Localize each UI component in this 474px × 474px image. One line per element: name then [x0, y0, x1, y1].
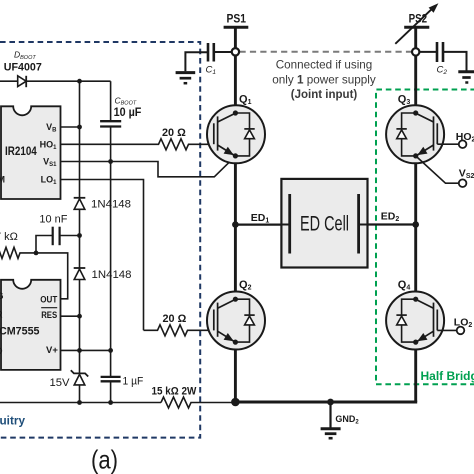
svg-text:1N4148: 1N4148: [91, 199, 131, 211]
node PS1: [232, 48, 239, 55]
transistor Q4: [386, 279, 444, 350]
transistor Q1: [207, 93, 265, 163]
wire VS1: [61, 156, 236, 177]
node ED1: [232, 212, 269, 228]
wire PS2 column top: [414, 27, 417, 113]
capacitor C2: [437, 42, 448, 76]
wire V+ pin: [61, 349, 111, 351]
svg-text:RES: RES: [41, 310, 57, 321]
resistor R1 20 ohm: [61, 127, 214, 150]
ground GND2: [321, 402, 360, 438]
zener 15V: [50, 370, 89, 389]
wire OUT: [36, 253, 68, 299]
svg-text:ED Cell: ED Cell: [300, 211, 349, 235]
resistor R4 15k 2W: [152, 386, 234, 408]
junction V+ zener: [77, 348, 82, 353]
svg-text:(Joint input): (Joint input): [291, 87, 358, 101]
capacitor C1: [206, 43, 217, 76]
svg-text:15 kΩ 2W: 15 kΩ 2W: [152, 386, 197, 398]
svg-text:(a): (a): [91, 445, 118, 474]
wire LO1: [61, 180, 144, 331]
capacitor Cboot 10uF: [100, 95, 141, 126]
svg-text:HO2: HO2: [456, 131, 474, 144]
wire ED1: [235, 224, 282, 226]
junction VS1-Cboot: [108, 159, 113, 164]
svg-text:10 nF: 10 nF: [39, 214, 67, 226]
junction bottom cap: [108, 400, 113, 405]
wire VS2 lead: [416, 156, 459, 183]
IC U1 IR2104: [0, 106, 61, 199]
svg-text:20 Ω: 20 Ω: [163, 313, 187, 325]
wire RES pin: [61, 315, 80, 317]
wire bottom left: [0, 402, 161, 404]
junction VB: [77, 125, 82, 130]
diode D2 1N4148: [74, 268, 132, 281]
junction V+ cap: [108, 348, 113, 353]
junction timing: [34, 251, 39, 256]
ED cell box: [281, 179, 367, 268]
svg-text:20 Ω: 20 Ω: [162, 127, 186, 139]
wire mid column Q2 bottom: [234, 342, 237, 402]
svg-text:M: M: [0, 175, 5, 185]
terminal HO2: [456, 131, 474, 148]
svg-text:UF4007: UF4007: [4, 62, 42, 74]
svg-text:1N4148: 1N4148: [92, 269, 132, 281]
supply PS1: [224, 11, 249, 27]
capacitor C3 10nF: [36, 214, 80, 253]
svg-text:PS1: PS1: [227, 11, 247, 25]
resistor R3 kohm: [0, 231, 36, 258]
junction bottom zener: [77, 400, 82, 405]
wire bottom rail: [234, 401, 417, 404]
dashed box driver circuitry: [0, 42, 200, 438]
svg-text:Connected if using: Connected if using: [276, 58, 373, 72]
node ED2: [381, 211, 419, 228]
wire C2 left: [419, 51, 437, 53]
svg-text:Half Bridge: Half Bridge: [421, 369, 474, 383]
svg-text:1 µF: 1 µF: [123, 376, 144, 388]
IC U2 ICM7555: [0, 280, 61, 370]
wire VB pin: [61, 126, 80, 128]
terminal VS2: [459, 168, 474, 187]
ED cell plates and text: [281, 194, 367, 254]
transistor Q2: [207, 279, 265, 350]
svg-text:V+: V+: [46, 345, 58, 356]
wire C1 left: [185, 52, 208, 71]
diode Dboot UF4007: [0, 50, 111, 88]
junction RES: [77, 314, 82, 319]
wire C2 right: [443, 52, 467, 71]
svg-text:ICM7555: ICM7555: [0, 325, 40, 337]
dashed box half bridge 2: [376, 90, 474, 385]
terminal LO2: [454, 317, 473, 335]
transistor Q3: [386, 93, 444, 163]
junction bottom rail left: [231, 398, 240, 407]
junction 10nF: [77, 233, 82, 238]
svg-text:15V: 15V: [50, 377, 71, 389]
wire ED2: [367, 223, 416, 225]
wire Cboot column: [110, 81, 112, 402]
svg-text:G: G: [0, 291, 4, 301]
junction GND2: [327, 399, 334, 406]
wire mid column Q1-Q2: [234, 156, 237, 299]
supply PS2: [395, 3, 438, 44]
resistor R2 20 ohm: [144, 313, 214, 336]
wire PS1 column top: [234, 27, 237, 113]
svg-text:7 kΩ: 7 kΩ: [0, 231, 18, 243]
ground at C2: [458, 72, 474, 83]
wire right column Q4 bottom: [414, 342, 417, 402]
wire LO2 lead: [437, 329, 456, 331]
ground at C1: [176, 73, 196, 84]
svg-text:OUT: OUT: [40, 294, 57, 305]
wire joint input dashed: [240, 51, 412, 53]
svg-text:IR2104: IR2104: [5, 146, 37, 158]
junction diode-Cboot: [77, 79, 82, 84]
capacitor C4 1uF: [101, 376, 144, 388]
wire C1 right: [214, 51, 232, 53]
svg-text:uitry: uitry: [0, 414, 25, 428]
wire HO2 lead: [437, 143, 459, 145]
wire bootstrap rail: [79, 81, 81, 402]
svg-text:only 1 power supply: only 1 power supply: [272, 72, 376, 86]
diode D1 1N4148: [74, 198, 131, 211]
svg-text:10 µF: 10 µF: [114, 105, 142, 119]
wire right column Q3-Q4: [414, 155, 417, 298]
node PS2: [412, 48, 419, 55]
